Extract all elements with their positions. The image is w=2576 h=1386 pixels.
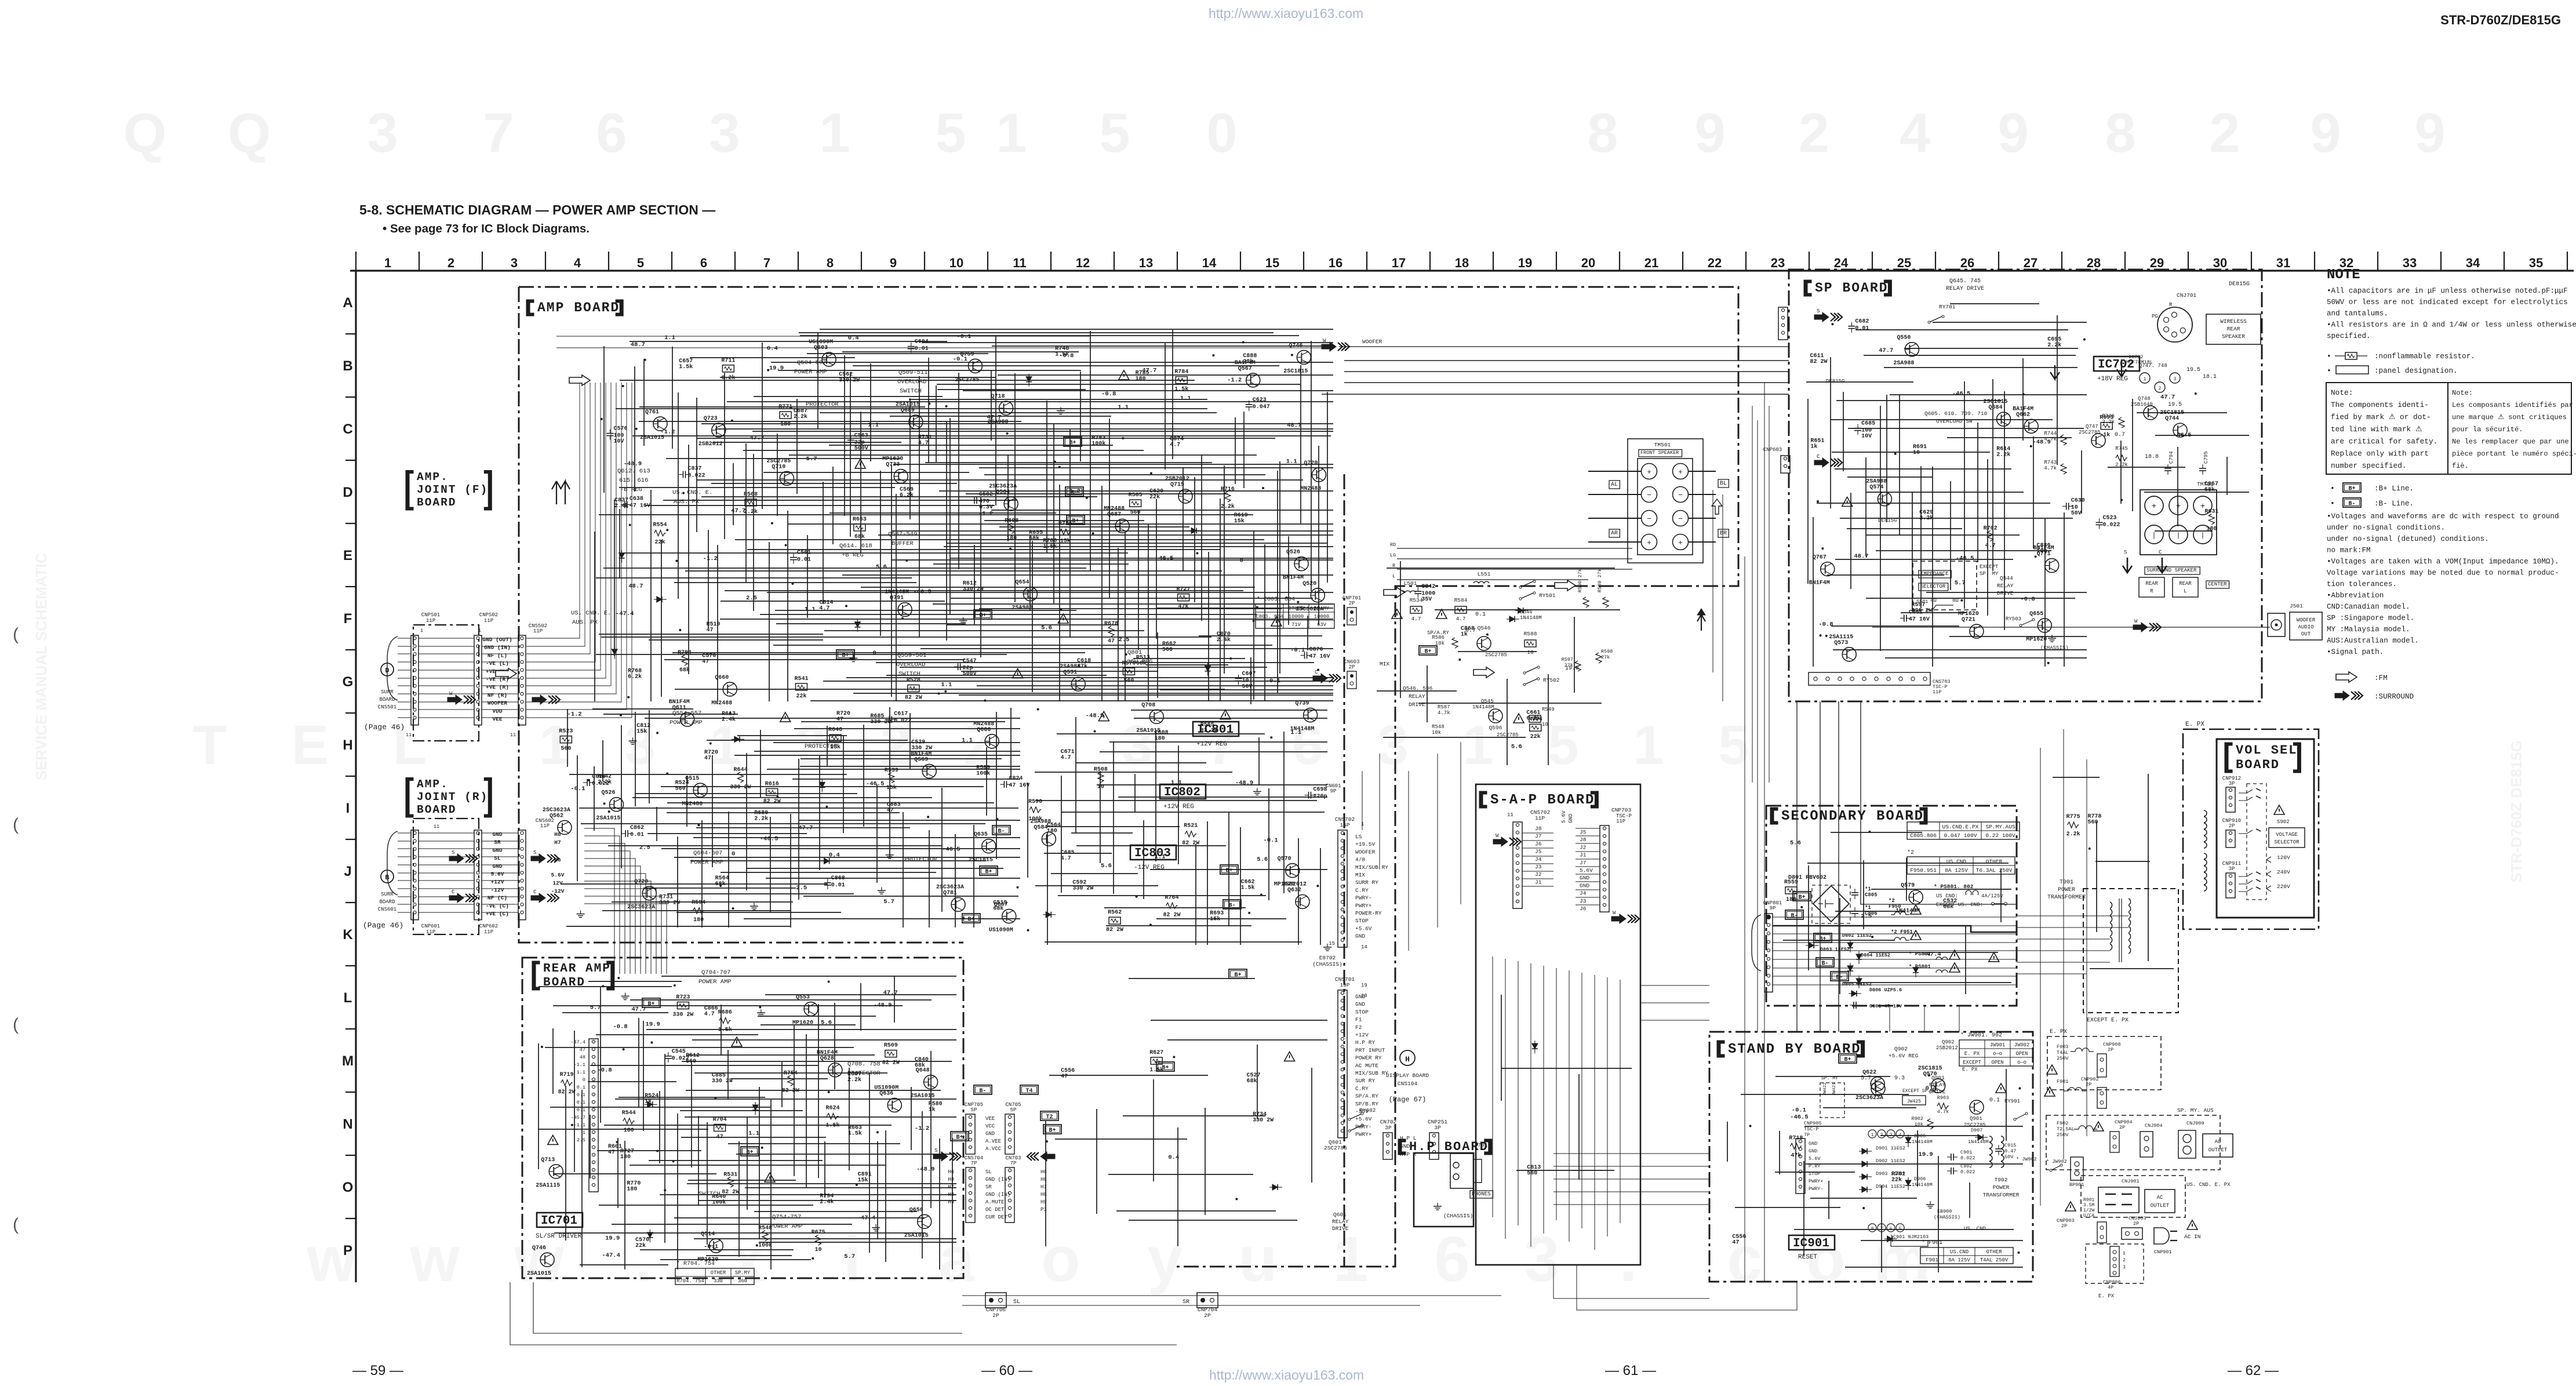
- svg-text:J501: J501: [2290, 603, 2303, 609]
- warning relay2: [1513, 714, 1524, 723]
- resistor R549: [1529, 715, 1541, 722]
- svg-text:11P: 11P: [1933, 689, 1941, 695]
- svg-text:1k: 1k: [1461, 631, 1468, 638]
- transistor Q569: [911, 751, 936, 778]
- svg-text:1.1: 1.1: [1118, 404, 1129, 411]
- capacitor C862: [621, 825, 644, 838]
- svg-text:1.5k: 1.5k: [825, 1122, 839, 1129]
- svg-text:27k: 27k: [1564, 663, 1573, 668]
- svg-text:Note:: Note:: [2452, 389, 2473, 397]
- relay to sap verticals: [1362, 742, 1461, 951]
- svg-text:0.047: 0.047: [1253, 404, 1270, 410]
- svg-text:22k: 22k: [1243, 358, 1253, 365]
- label AMP. JOINT (R) BOARD: [406, 778, 413, 818]
- svg-text:3P: 3P: [2229, 781, 2235, 787]
- FM arrow legend: [2336, 672, 2357, 682]
- svg-text:Q604-607: Q604-607: [693, 850, 722, 857]
- sp down buses: [1797, 701, 2017, 1032]
- svg-text:+VE (C): +VE (C): [486, 911, 509, 917]
- svg-text:48.7: 48.7: [631, 341, 645, 348]
- transistor Q713: [536, 1157, 563, 1189]
- svg-text:1.1: 1.1: [805, 606, 816, 613]
- svg-text:+18V REG: +18V REG: [2097, 376, 2128, 383]
- AMP JOINT F pin labels: [482, 636, 512, 722]
- svg-text:AMP BOARD: AMP BOARD: [537, 300, 620, 315]
- svg-text:CNJ701: CNJ701: [2177, 292, 2197, 299]
- T901 windings: [2110, 898, 2131, 954]
- svg-text:68k: 68k: [1943, 903, 1953, 910]
- safety-critical mark: [765, 1173, 775, 1182]
- svg-text:(Page 46): (Page 46): [364, 723, 405, 732]
- svg-text:615. 616: 615. 616: [619, 477, 648, 484]
- svg-text:2.4k: 2.4k: [820, 1199, 834, 1206]
- resistor R771: [778, 404, 792, 428]
- svg-text:82 2W: 82 2W: [1106, 927, 1123, 933]
- svg-text:BN1F4M: BN1F4M: [911, 751, 932, 757]
- svg-text:1.5k: 1.5k: [718, 1027, 732, 1034]
- svg-text:C604: C604: [915, 339, 929, 345]
- diode D524: [1188, 528, 1201, 533]
- capacitor C623: [1246, 397, 1270, 411]
- svg-text:MN2488: MN2488: [682, 801, 703, 807]
- secondary to transformer wires: [2017, 916, 2129, 974]
- svg-text:Q596: Q596: [1489, 725, 1502, 731]
- svg-text:4.7: 4.7: [1985, 543, 1996, 549]
- capacitor C698: [1304, 787, 1327, 800]
- svg-text:Q650: Q650: [909, 1207, 923, 1213]
- svg-text:−: −: [1647, 491, 1651, 500]
- svg-text:22: 22: [1708, 256, 1722, 270]
- svg-text:330 2W: 330 2W: [870, 719, 891, 726]
- svg-text:B+: B+: [2348, 486, 2355, 492]
- svg-text:AR: AR: [1611, 530, 1618, 537]
- svg-text:Q689: Q689: [901, 408, 915, 414]
- svg-text:Q614. 618: Q614. 618: [839, 543, 872, 550]
- svg-text:5.6V: 5.6V: [491, 871, 504, 878]
- transistor Q596: [1489, 709, 1502, 723]
- svg-text:CNJ909: CNJ909: [2186, 1121, 2204, 1126]
- center box: [2206, 581, 2229, 588]
- diode D546: [1509, 616, 1515, 622]
- svg-text:2SA988: 2SA988: [1893, 361, 1914, 367]
- svg-text:RY901: RY901: [2004, 1098, 2020, 1104]
- capacitor C617: [885, 711, 911, 724]
- svg-text:180: 180: [693, 917, 704, 923]
- svg-text:J7: J7: [1580, 860, 1586, 866]
- transistor Q771: [2033, 545, 2059, 573]
- svg-text:1.5k: 1.5k: [1043, 543, 1057, 550]
- svg-text:B+: B+: [1844, 1057, 1851, 1063]
- svg-text:T6.3AL 250V: T6.3AL 250V: [1976, 867, 2013, 874]
- amp to sp bus lines: [1322, 361, 1789, 394]
- svg-text:+: +: [1678, 539, 1683, 547]
- svg-text:100k: 100k: [976, 770, 990, 777]
- resistor R702: [1984, 525, 1998, 549]
- svg-text:G: G: [343, 674, 354, 690]
- svg-text:10V: 10V: [1861, 434, 1872, 440]
- svg-text:1.5k: 1.5k: [848, 1130, 862, 1137]
- svg-text::B- Line.: :B- Line.: [2374, 500, 2414, 508]
- svg-text:2: 2: [2159, 386, 2162, 391]
- svg-text:POWER: POWER: [1993, 1184, 2010, 1191]
- svg-text:SP.MY: SP.MY: [735, 1270, 751, 1276]
- svg-text:5: 5: [637, 256, 644, 270]
- svg-text:2.2k: 2.2k: [1996, 451, 2010, 458]
- note bullet lines 2: [2327, 512, 2559, 656]
- driver IC701 label: [537, 1213, 583, 1227]
- VOL SEL BOARD box: [2217, 739, 2314, 918]
- svg-text:Les composants identifiés par: Les composants identifiés par: [2452, 401, 2573, 409]
- svg-text:100k: 100k: [1091, 440, 1105, 447]
- transistor Q684: [1983, 399, 2010, 426]
- svg-text:C685: C685: [1861, 421, 1875, 427]
- svg-text:Q767: Q767: [1813, 555, 1827, 561]
- safety-critical mark: [855, 459, 865, 468]
- svg-text:(CHASSIS): (CHASSIS): [1312, 961, 1342, 967]
- svg-text:1: 1: [384, 256, 391, 270]
- capacitor C561: [790, 550, 811, 564]
- svg-text:— 62 —: — 62 —: [2228, 1363, 2279, 1378]
- svg-text:26: 26: [1960, 256, 1974, 270]
- svg-text:S902: S902: [2277, 819, 2290, 825]
- svg-text:S-A-P BOARD: S-A-P BOARD: [1490, 792, 1595, 808]
- svg-text:— 60 —: — 60 —: [981, 1363, 1032, 1378]
- svg-text:WOOFER: WOOFER: [1355, 849, 1376, 855]
- svg-text:560: 560: [686, 1058, 696, 1065]
- svg-text:tion tolerances.: tion tolerances.: [2327, 580, 2397, 588]
- svg-text:6.2k: 6.2k: [1526, 715, 1540, 722]
- svg-text:R586: R586: [1432, 635, 1445, 641]
- ground: [878, 887, 886, 894]
- svg-text:2.2k: 2.2k: [598, 779, 612, 785]
- transistor Q666: [973, 721, 999, 748]
- svg-text:4.7: 4.7: [1411, 616, 1421, 622]
- svg-text:2P: 2P: [2133, 1221, 2139, 1227]
- svg-text:-46.5: -46.5: [760, 836, 778, 843]
- svg-text:EXCEPT E. PX: EXCEPT E. PX: [2087, 1017, 2129, 1024]
- boxed AR: [1609, 529, 1620, 537]
- svg-text:|: |: [2200, 532, 2204, 540]
- svg-text:180: 180: [1006, 535, 1017, 541]
- svg-text:-1.2: -1.2: [660, 428, 675, 435]
- svg-text:47: 47: [1108, 638, 1115, 645]
- capacitor C801: [1853, 1002, 1854, 1009]
- svg-text:1.1: 1.1: [748, 1130, 759, 1137]
- svg-text:5P: 5P: [1010, 1107, 1017, 1113]
- svg-text:2P: 2P: [2119, 1125, 2125, 1130]
- svg-text:C.RY: C.RY: [1355, 1085, 1369, 1092]
- diode D736: [819, 779, 825, 792]
- svg-text:(: (: [13, 1015, 19, 1034]
- svg-text:10: 10: [1097, 784, 1104, 791]
- column numbers 1-35: [384, 256, 2543, 270]
- standby small circles chip pins: [1868, 1130, 1904, 1232]
- svg-text:R508: R508: [1094, 767, 1108, 773]
- svg-text:5: 5: [935, 102, 966, 164]
- svg-text:B-: B-: [1791, 913, 1798, 919]
- svg-text:-1.2: -1.2: [1066, 488, 1080, 495]
- svg-text:B+: B+: [1798, 894, 1805, 901]
- svg-text:1.5k: 1.5k: [1055, 351, 1069, 358]
- B+ B- boxes rear: [974, 1085, 992, 1094]
- svg-text:T4AL: T4AL: [2057, 1050, 2068, 1056]
- svg-text:R698: R698: [1005, 518, 1018, 524]
- svg-text:Q710: Q710: [772, 464, 785, 470]
- svg-text:21: 21: [1644, 256, 1658, 270]
- svg-text:C805.806: C805.806: [1910, 832, 1937, 839]
- svg-text:STAND BY BOARD: STAND BY BOARD: [1728, 1042, 1861, 1057]
- svg-text:OPEN: OPEN: [1991, 1060, 2003, 1065]
- svg-text:Q570: Q570: [1923, 1071, 1937, 1078]
- svg-text:1.1: 1.1: [941, 681, 952, 688]
- svg-text:2SA1015: 2SA1015: [904, 1232, 929, 1239]
- svg-text:7: 7: [483, 102, 514, 164]
- svg-text:10: 10: [1527, 649, 1534, 656]
- svg-text:C805: C805: [1865, 892, 1878, 898]
- svg-text:BOARD: BOARD: [543, 976, 585, 990]
- svg-text:82 2W: 82 2W: [1810, 359, 1827, 365]
- S-A-P descending bus: [1493, 956, 1620, 1250]
- svg-text:29: 29: [2150, 256, 2164, 270]
- svg-text:REAR AMP: REAR AMP: [543, 962, 611, 976]
- front speaker relay circuitry wires: [1377, 561, 1620, 765]
- svg-text:C862: C862: [630, 825, 644, 831]
- svg-text:DRIVE: DRIVE: [1332, 1225, 1349, 1232]
- svg-text:2SC3623A: 2SC3623A: [1855, 1095, 1883, 1101]
- svg-text:A.VEE: A.VEE: [985, 1138, 1001, 1144]
- transistor Q655: [2026, 611, 2051, 643]
- svg-text:Q: Q: [228, 102, 271, 164]
- svg-text:R745: R745: [2115, 446, 2128, 452]
- transistor Q636: [874, 1085, 901, 1112]
- svg-text:Q715: Q715: [1170, 482, 1184, 488]
- svg-text:5.6: 5.6: [1101, 863, 1112, 870]
- svg-text:http://www.xiaoyu163.com: http://www.xiaoyu163.com: [1209, 1367, 1364, 1383]
- svg-text:TM501: TM501: [1654, 442, 1671, 448]
- svg-text:F902: F902: [2057, 1121, 2068, 1126]
- svg-text:J5: J5: [1535, 849, 1542, 855]
- svg-text:10: 10: [1913, 450, 1920, 456]
- SECONDARY BOARD circuitry wires: [1783, 831, 2011, 994]
- svg-text:47: 47: [1061, 1074, 1068, 1080]
- svg-text:7P: 7P: [1010, 1161, 1017, 1166]
- svg-text:(: (: [13, 625, 19, 644]
- svg-text:*2: *2: [1907, 849, 1914, 856]
- svg-text:AUS. PX: AUS. PX: [674, 499, 700, 505]
- svg-text:• See page 73 for IC Block Dia: • See page 73 for IC Block Diagrams.: [383, 222, 590, 235]
- transistor Q654: [1012, 580, 1037, 612]
- svg-text:Q567: Q567: [1238, 366, 1252, 372]
- svg-text:C.RY: C.RY: [1355, 887, 1369, 893]
- svg-text:Q605. 610. 709. 710: Q605. 610. 709. 710: [1924, 410, 1988, 417]
- svg-text:560: 560: [1527, 1170, 1537, 1177]
- svg-text:OVERLOAD: OVERLOAD: [897, 379, 926, 385]
- capacitor C616: [583, 774, 609, 787]
- svg-text:120V: 120V: [2277, 854, 2290, 861]
- svg-text:C576: C576: [614, 426, 628, 432]
- svg-text:L: L: [1392, 573, 1395, 579]
- svg-text:2SA988: 2SA988: [1012, 605, 1032, 612]
- svg-text:H8: H8: [948, 1177, 954, 1183]
- svg-text:47: 47: [608, 1149, 615, 1156]
- svg-text:R531: R531: [723, 1172, 737, 1178]
- svg-text:MP1620: MP1620: [697, 1257, 718, 1263]
- svg-text:AMP.: AMP.: [417, 471, 449, 483]
- svg-text:TSC-P: TSC-P: [1804, 1126, 1819, 1132]
- secondary B+ box 1: [1793, 892, 1811, 901]
- diode B657: [854, 619, 860, 632]
- svg-text:NF (R): NF (R): [487, 692, 507, 699]
- svg-text:SWITCH: SWITCH: [900, 388, 922, 395]
- svg-text:R521: R521: [1184, 823, 1198, 830]
- svg-text:-48.9: -48.9: [2032, 439, 2051, 446]
- svg-text:17: 17: [1392, 256, 1406, 270]
- svg-text:24: 24: [1834, 256, 1849, 270]
- transistor Q628: [817, 1050, 842, 1077]
- svg-text:US1090M: US1090M: [989, 927, 1013, 934]
- STAND BY BOARD circuitry wires: [1727, 1069, 2023, 1272]
- svg-text:Q723: Q723: [704, 416, 718, 422]
- svg-text:0.1: 0.1: [577, 1085, 585, 1090]
- svg-text:GND: GND: [1809, 1141, 1817, 1147]
- SECONDARY BOARD outline: [1766, 806, 2017, 1006]
- diode B712: [1515, 607, 1528, 613]
- svg-text:-46.5: -46.5: [2173, 432, 2192, 439]
- svg-text:OPEN: OPEN: [2015, 1051, 2028, 1057]
- resistor R663: [853, 516, 867, 540]
- CNP906 4P: [2110, 1246, 2119, 1276]
- svg-text:R570: R570: [1122, 660, 1136, 667]
- svg-text:250V: 250V: [2057, 1056, 2069, 1061]
- transistor Q546: [1477, 636, 1491, 650]
- svg-text:R534: R534: [1410, 597, 1423, 603]
- svg-text:Q628: Q628: [820, 1056, 834, 1062]
- svg-text:Q687: Q687: [1107, 511, 1121, 518]
- svg-text:STOP: STOP: [1355, 1009, 1369, 1015]
- svg-text:Ne les remplacer que par une: Ne les remplacer que par une: [2452, 438, 2569, 446]
- faint watermark row 1: [123, 102, 2446, 164]
- svg-text:3P: 3P: [1385, 1125, 1392, 1131]
- resistor R554: [653, 522, 667, 546]
- ground: [872, 1224, 880, 1231]
- S-A-P arrow W: [1493, 837, 1521, 846]
- svg-text:+: +: [2152, 502, 2156, 511]
- svg-text:B+: B+: [956, 1134, 963, 1141]
- svg-text:POWER RY: POWER RY: [1355, 1055, 1382, 1061]
- svg-text:2.5: 2.5: [639, 845, 650, 852]
- svg-text:JW902: JW902: [2014, 1042, 2029, 1048]
- svg-text:4.7: 4.7: [1061, 755, 1071, 761]
- joint R to rear amp wire bundle: [584, 828, 667, 974]
- svg-text:Q574: Q574: [1869, 485, 1883, 491]
- svg-text:-47.4: -47.4: [602, 1252, 620, 1259]
- svg-text:6.2k: 6.2k: [721, 374, 735, 381]
- svg-text:2SC2785: 2SC2785: [1485, 652, 1507, 658]
- svg-text:LG: LG: [1390, 552, 1396, 558]
- capacitor C547: [954, 658, 977, 677]
- safety-critical mark: [1842, 497, 1853, 507]
- svg-text:7P: 7P: [1804, 1132, 1810, 1138]
- reset IC901 label: [1789, 1235, 1835, 1250]
- svg-text:D905: D905: [1914, 1133, 1926, 1139]
- svg-text:US.CND: US.CND: [1946, 858, 1967, 865]
- svg-text:Q546: Q546: [1478, 625, 1491, 631]
- AMP BOARD front channel circuitry wires: [595, 329, 1333, 701]
- svg-text:330 2W: 330 2W: [839, 377, 860, 384]
- svg-text:POWER AMP: POWER AMP: [690, 859, 723, 866]
- svg-text:4: 4: [574, 256, 581, 270]
- svg-text:0.4: 0.4: [829, 852, 840, 858]
- R901 dashed: [2114, 1175, 2115, 1176]
- svg-text:4: 4: [1900, 102, 1930, 164]
- svg-text:SL: SL: [985, 1169, 992, 1175]
- resistor R509: [882, 1043, 900, 1067]
- svg-text:R568: R568: [744, 492, 758, 498]
- svg-text:+12V: +12V: [1355, 1032, 1369, 1038]
- svg-text:4.7k: 4.7k: [1937, 1109, 1949, 1115]
- svg-text:Q584: Q584: [1034, 824, 1047, 831]
- transistor Q573: [1829, 634, 1856, 661]
- svg-text:-46.5: -46.5: [1790, 1114, 1809, 1121]
- svg-text:2SC2785: 2SC2785: [766, 458, 791, 464]
- svg-text:R509: R509: [884, 1043, 898, 1049]
- svg-text:CNP901: CNP901: [2154, 1249, 2172, 1255]
- svg-text:−: −: [1647, 515, 1651, 523]
- svg-text:w: w: [306, 1224, 356, 1295]
- svg-text:1N4148M: 1N4148M: [1895, 908, 1920, 915]
- svg-text:2P: 2P: [2229, 823, 2235, 829]
- svg-text:Q739: Q739: [1296, 701, 1309, 707]
- svg-text:Q622: Q622: [1862, 1069, 1876, 1076]
- svg-text:Q684: Q684: [1988, 405, 2002, 411]
- svg-text:D: D: [343, 485, 352, 500]
- svg-text:-48.9: -48.9: [874, 1002, 892, 1009]
- svg-text:0.7: 0.7: [2115, 432, 2125, 438]
- capacitor C824: [1000, 776, 1029, 789]
- transistor Q526: [596, 790, 623, 822]
- svg-text:Q708: Q708: [1141, 702, 1155, 708]
- svg-text:15k: 15k: [1210, 915, 1220, 922]
- svg-text:1k: 1k: [645, 1098, 652, 1105]
- svg-text:AC MUTE: AC MUTE: [1355, 1063, 1378, 1069]
- svg-text:Q781: Q781: [943, 890, 957, 896]
- svg-text:R562: R562: [1108, 910, 1122, 916]
- svg-text:1.1: 1.1: [1286, 458, 1297, 465]
- svg-text:5.6: 5.6: [876, 563, 887, 570]
- transistor Q767: [1809, 555, 1835, 587]
- svg-text:19.9: 19.9: [769, 365, 784, 372]
- svg-text:POWER AMP: POWER AMP: [794, 369, 827, 376]
- secondary thick B line: [1773, 926, 2017, 932]
- svg-text:250V: 250V: [2057, 1132, 2069, 1138]
- svg-text:Q579: Q579: [1901, 883, 1915, 889]
- svg-text:REAR: REAR: [2179, 581, 2192, 587]
- svg-text:20: 20: [1581, 256, 1595, 270]
- capacitor C607: [1235, 671, 1256, 690]
- svg-text:82 2W: 82 2W: [1182, 841, 1199, 847]
- secondary bus wires: [1773, 917, 2017, 985]
- svg-text:T902: T902: [1995, 1177, 2008, 1183]
- resistor R686: [718, 1010, 732, 1034]
- diode D644: [1043, 912, 1056, 918]
- transistor Q553: [792, 995, 818, 1027]
- svg-text:C: C: [343, 421, 352, 437]
- svg-text:-0.8: -0.8: [613, 1023, 627, 1030]
- svg-text:R704. 754: R704. 754: [676, 1278, 704, 1284]
- svg-text:R548: R548: [1432, 724, 1445, 730]
- svg-text:•Abbreviation: •Abbreviation: [2327, 592, 2384, 600]
- transistor Q791: [885, 590, 912, 617]
